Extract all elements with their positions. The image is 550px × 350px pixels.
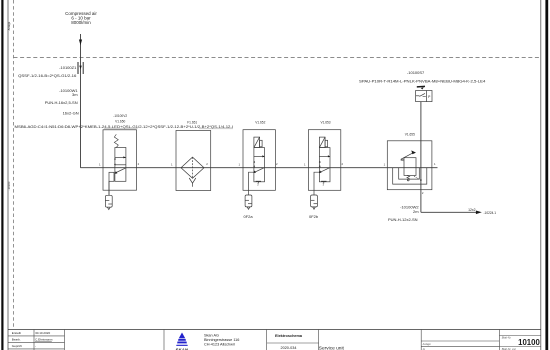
svg-text:PUN-H-16x2,5-SN: PUN-H-16x2,5-SN (45, 100, 78, 105)
svg-text:Bearb.: Bearb. (12, 338, 21, 342)
svg-text:Elektroschema: Elektroschema (275, 334, 303, 338)
svg-text:-10100: -10100 (7, 181, 11, 190)
zone separator dashed line (14, 57, 541, 59)
blatt cell bottom line (499, 346, 540, 348)
svg-text:MSB6-AGD:C4:I1:N51:D6:D8-WP+2*: MSB6-AGD:C4:I1:N51:D6:D8-WP+2*KMEB-1-24-… (15, 125, 234, 129)
svg-text:Binningerstrasse 116: Binningerstrasse 116 (204, 338, 239, 342)
sensor tapping line (420, 102, 422, 141)
revision table (8, 330, 65, 350)
frame left thick bar (1, 0, 3, 350)
svg-text:C.Ehrismann: C.Ehrismann (35, 338, 53, 342)
svg-text:QSSF-1/2-16-B=2*QS-G1/2-16: QSSF-1/2-16-B=2*QS-G1/2-16 (18, 73, 77, 78)
svg-text:Anlage: Anlage (7, 21, 11, 30)
valve V1.650 (103, 130, 137, 190)
valve V1.653 (308, 130, 340, 195)
svg-text:-10100V2: -10100V2 (113, 114, 127, 118)
svg-text:10100: 10100 (518, 338, 540, 347)
svg-text:V1.652: V1.652 (255, 121, 265, 125)
svg-text:V1.655: V1.655 (405, 133, 415, 137)
flow direction arrow (476, 211, 482, 215)
svg-text:-10224.1: -10224.1 (484, 211, 497, 215)
svg-text:-10100S7: -10100S7 (407, 70, 425, 75)
compressed air source label (65, 11, 97, 25)
frame left thin line (7, 0, 9, 350)
SKAN logo (176, 333, 188, 346)
electrical connection zigzag (417, 85, 425, 88)
supply flow arrow (79, 40, 82, 46)
silencer (below V1.653) (311, 195, 318, 209)
svg-text:30.10.2020: 30.10.2020 (35, 331, 50, 335)
valve V1.652 (243, 130, 275, 195)
filter F1.651 (176, 131, 211, 191)
svg-text:Geprüft: Geprüft (12, 344, 22, 348)
svg-text:SPAU-P10R-T-R14M-L-PNLK-PNVBA-: SPAU-P10R-T-R14M-L-PNLK-PNVBA-M8+NEBU-M8… (359, 79, 485, 83)
svg-text:PUN-H-12x2-SN: PUN-H-12x2-SN (388, 217, 418, 222)
svg-text:-: - (35, 344, 36, 348)
exhaust line to silencer (V1.650) (108, 181, 110, 195)
svg-text:8000l/min: 8000l/min (71, 20, 91, 25)
svg-text:12x2: 12x2 (468, 208, 475, 212)
svg-text:0F2a: 0F2a (244, 214, 254, 219)
anlage cell lines (421, 340, 499, 342)
title block top line (8, 329, 541, 331)
svg-text:2020-034: 2020-034 (280, 346, 296, 350)
svg-text:V1.650: V1.650 (115, 120, 125, 124)
svg-text:3m: 3m (72, 92, 78, 97)
svg-text:Erstellt: Erstellt (12, 331, 21, 335)
svg-text:Service unit: Service unit (319, 345, 345, 350)
svg-text:Blatt-Nr.: Blatt-Nr. (502, 335, 512, 339)
frame right thin line (540, 0, 542, 350)
pressure regulator V1.655 (387, 141, 432, 190)
parts list underline (104, 128, 138, 130)
svg-text:0F2b: 0F2b (309, 214, 319, 219)
svg-text:Anlage: Anlage (422, 342, 432, 346)
svg-text:V1.653: V1.653 (320, 121, 330, 125)
coupling -10100Z1 (78, 62, 83, 74)
svg-text:F1.651: F1.651 (187, 121, 197, 125)
silencer (below V1.652) (245, 195, 252, 209)
blatt cell line (499, 335, 540, 337)
frame right thick bar (545, 0, 548, 350)
title block vertical dividers (164, 330, 499, 350)
output line to the right (421, 211, 476, 213)
svg-text:CH-4123 Allschwil: CH-4123 Allschwil (204, 343, 235, 347)
svg-text:-10100Z1: -10100Z1 (59, 65, 77, 70)
svg-text:Skan AG: Skan AG (204, 334, 219, 338)
pressure switch -10100S7 (416, 91, 432, 102)
silencer U-1/2 (below V1.650) (105, 195, 112, 209)
doc cell divider (267, 342, 319, 344)
main air line (81, 167, 438, 169)
svg-text:16x2-GN: 16x2-GN (63, 110, 79, 115)
svg-text:2m: 2m (413, 209, 419, 214)
supply line vertical (80, 34, 82, 168)
output line down (420, 190, 422, 213)
frame left dashed margin line (13, 0, 15, 327)
